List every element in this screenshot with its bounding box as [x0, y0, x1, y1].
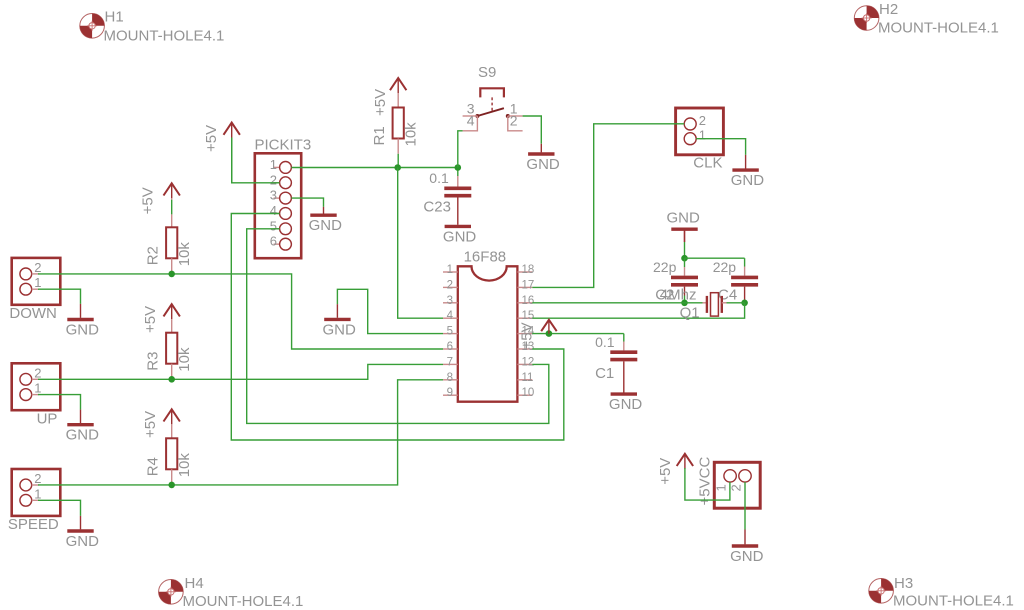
svg-text:2: 2	[34, 260, 41, 275]
svg-text:C1: C1	[595, 365, 614, 382]
svg-text:PICKIT3: PICKIT3	[255, 137, 312, 154]
pin 12 of U1	[517, 356, 534, 368]
pin 2 of VCC	[729, 470, 752, 492]
svg-text:11: 11	[522, 372, 534, 384]
ground below UP	[66, 410, 100, 444]
IC U1 16F88 body	[458, 266, 518, 401]
wire net S9 pin 1 to GND	[523, 116, 542, 144]
wire net PICKIT3 pin3 to GND	[291, 198, 323, 207]
svg-text:GND: GND	[526, 156, 560, 173]
pin 5 of U1	[443, 326, 458, 338]
svg-text:Q1: Q1	[680, 305, 700, 322]
svg-text:MOUNT-HOLE4.1: MOUNT-HOLE4.1	[104, 28, 225, 45]
svg-text:+5VCC: +5VCC	[697, 457, 714, 506]
junction node UP at R3	[168, 376, 175, 383]
pin 2 of SPEED	[20, 471, 42, 491]
ground below DOWN	[66, 304, 100, 339]
label C1	[595, 365, 614, 382]
svg-text:9: 9	[447, 387, 453, 399]
wire net CLK pin1 to GND	[696, 139, 745, 155]
label C2	[655, 287, 674, 304]
label R4	[145, 457, 162, 476]
ground below C23	[443, 225, 477, 246]
svg-text:5: 5	[447, 326, 453, 338]
pin 9 of U1	[443, 387, 458, 399]
svg-text:1: 1	[34, 486, 41, 501]
svg-text:R3: R3	[145, 352, 162, 371]
pin 18 of U1	[517, 264, 534, 276]
svg-text:GND: GND	[731, 172, 765, 189]
svg-text:MOUNT-HOLE4.1: MOUNT-HOLE4.1	[893, 593, 1014, 610]
ground below U1 pin5	[323, 304, 357, 338]
svg-text:4: 4	[447, 310, 454, 322]
svg-text:22p: 22p	[653, 259, 677, 275]
wire net PICKIT3 pin4 to U1 pin13	[231, 214, 564, 441]
power +5V above R2	[139, 183, 180, 214]
wire net U1 pin16 to OSC1	[532, 302, 684, 304]
label H3	[894, 575, 913, 592]
svg-text:H1: H1	[105, 9, 124, 26]
svg-text:+5V: +5V	[142, 411, 159, 438]
svg-text:7: 7	[447, 356, 453, 368]
pin 4 of U1	[443, 310, 458, 322]
mounting hole H3	[869, 579, 894, 604]
svg-text:17: 17	[522, 279, 535, 291]
wire C2 bottom to node OSC1	[684, 296, 686, 303]
wire net C2 top to C4 top	[685, 257, 745, 259]
svg-text:H3: H3	[894, 575, 913, 592]
value 22p of C4	[713, 259, 737, 275]
junction node VDD at +5V	[546, 330, 553, 337]
svg-text:R2: R2	[145, 246, 162, 265]
connector PICKIT3	[255, 153, 301, 258]
label DOWN	[9, 305, 57, 322]
svg-text:10: 10	[522, 387, 535, 399]
value MOUNT-HOLE4.1 of H4	[183, 593, 304, 610]
power +5V above PICKIT3 pin2	[203, 123, 240, 183]
svg-text:DOWN: DOWN	[9, 305, 57, 322]
svg-text:R4: R4	[145, 457, 162, 476]
pin 1 of UP	[20, 381, 42, 401]
pin 10 of U1	[517, 387, 534, 399]
svg-text:C23: C23	[423, 199, 451, 216]
svg-text:1: 1	[699, 128, 706, 143]
label H4	[185, 575, 204, 592]
svg-text:3: 3	[270, 188, 277, 203]
pin 3 of U1	[443, 295, 458, 307]
svg-text:+5V: +5V	[142, 306, 159, 333]
pin 6 of U1	[443, 341, 458, 353]
label S9	[478, 64, 496, 81]
wire net rail to S9 pin 4	[458, 131, 463, 168]
pin 8 of U1	[443, 372, 458, 384]
label +5VCC of VCC	[697, 457, 714, 506]
svg-text:6: 6	[270, 234, 277, 249]
svg-text:GND: GND	[66, 321, 100, 338]
svg-text:H2: H2	[879, 1, 898, 18]
svg-text:+5V: +5V	[203, 125, 220, 152]
svg-text:GND: GND	[323, 321, 357, 338]
wire net R1 to U1 pin4 MCLR	[398, 168, 443, 319]
pin 2 of S9	[508, 113, 523, 131]
pin 1 of CLK	[684, 128, 706, 145]
switch S9	[475, 88, 509, 118]
svg-text:2: 2	[34, 365, 41, 380]
pin 2 of DOWN	[20, 260, 42, 280]
pin 2 of PICKIT3	[270, 172, 292, 188]
svg-text:2: 2	[699, 113, 706, 128]
svg-text:2: 2	[729, 484, 744, 491]
svg-text:+5V: +5V	[139, 187, 156, 214]
svg-text:CLK: CLK	[693, 155, 722, 172]
connector CLK	[676, 108, 724, 155]
connector UP	[12, 363, 61, 410]
label SPEED	[8, 516, 59, 533]
wire net SPEED pin2 row	[38, 380, 443, 485]
wire net U1 pin17 to CLK pin2	[532, 124, 684, 288]
svg-text:2: 2	[34, 471, 41, 486]
wire net DOWN pin1 to GND	[38, 289, 81, 304]
ground below CLK	[731, 155, 765, 189]
ground below C1	[609, 393, 643, 414]
svg-text:1: 1	[447, 264, 453, 276]
pin 4 of S9	[463, 113, 478, 131]
value 0.1 of C23	[429, 170, 449, 186]
label C23	[423, 199, 451, 216]
value MOUNT-HOLE4.1 of H2	[878, 20, 999, 37]
wire net U1 pin5 VSS to GND	[337, 289, 443, 333]
value 4Mhz of Q1	[660, 287, 697, 304]
value 22p of C2	[653, 259, 677, 275]
junction node XTALTOP at C2	[681, 255, 688, 262]
capacitor C2	[671, 258, 698, 295]
connector DOWN	[12, 258, 61, 305]
svg-text:R1: R1	[371, 126, 388, 145]
junction node DOWN at R2	[168, 271, 175, 278]
svg-text:0.1: 0.1	[429, 170, 449, 186]
svg-text:+5V: +5V	[657, 458, 674, 485]
wire net DOWN pin2 row	[38, 274, 443, 349]
svg-text:22p: 22p	[713, 259, 737, 275]
pin 2 of U1	[443, 279, 458, 291]
power +5V at U1 pin 14	[519, 320, 557, 350]
resistor R4 body	[166, 438, 177, 484]
svg-text:16F88: 16F88	[464, 249, 507, 266]
label R3	[145, 352, 162, 371]
svg-text:4Mhz: 4Mhz	[660, 287, 697, 304]
pin 2 of CLK	[684, 113, 706, 130]
wire net U1 pin15 to OSC2	[532, 303, 744, 318]
svg-text:3: 3	[447, 295, 453, 307]
pin 2 of UP	[20, 365, 42, 385]
ground below PICKIT3 pin3	[309, 207, 343, 234]
junction node OSC2	[741, 300, 748, 307]
label CLK	[693, 155, 722, 172]
pin 1 of DOWN	[20, 275, 42, 295]
wire net SPEED pin1 to GND	[38, 500, 81, 516]
svg-text:GND: GND	[609, 396, 643, 413]
mounting hole H1	[80, 13, 105, 38]
pin 4 of PICKIT3	[270, 203, 292, 219]
wire net U1 pin14 to C1	[532, 333, 624, 335]
capacitor C23	[444, 168, 471, 225]
svg-text:6: 6	[447, 341, 453, 353]
pin 1 of PICKIT3	[270, 157, 292, 173]
value 10k of R1	[403, 122, 420, 147]
svg-text:4: 4	[467, 113, 475, 129]
power +5V above R4	[142, 409, 180, 438]
resistor R3 body	[166, 333, 177, 379]
svg-text:5: 5	[270, 218, 277, 233]
ground below SPEED	[66, 516, 100, 550]
pin 1 of U1	[443, 264, 458, 276]
value 0.1 of C1	[595, 334, 615, 350]
value 10k of R2	[176, 242, 193, 267]
label 16F88 of U1	[464, 249, 507, 266]
svg-text:S9: S9	[478, 64, 496, 81]
svg-text:18: 18	[522, 264, 535, 276]
mounting hole H2	[854, 6, 879, 31]
svg-text:10k: 10k	[176, 347, 193, 372]
label Q1	[680, 305, 700, 322]
power +5V above R1	[372, 78, 406, 116]
svg-text:0.1: 0.1	[595, 334, 615, 350]
pin 3 of PICKIT3	[270, 188, 292, 204]
svg-text:2: 2	[270, 172, 277, 187]
svg-text:1: 1	[270, 157, 277, 172]
svg-text:GND: GND	[66, 533, 100, 550]
svg-text:GND: GND	[309, 217, 343, 234]
label R2	[145, 246, 162, 265]
wire net PICKIT3 pin5 to U1 pin12	[247, 229, 549, 424]
connector SPEED	[12, 469, 61, 516]
junction rail at C23/S9	[455, 164, 462, 171]
pin 11 of U1	[517, 372, 533, 384]
wire net UP pin2 row	[38, 364, 443, 379]
pin 1 of SPEED	[20, 486, 42, 506]
wire net UP pin1 to GND	[38, 395, 81, 410]
power +5V above R3	[142, 304, 180, 333]
svg-text:+5V: +5V	[372, 89, 389, 116]
junction node SPEED at R4	[168, 482, 175, 489]
svg-text:GND: GND	[730, 548, 764, 565]
svg-text:10k: 10k	[403, 122, 420, 147]
wire GND lead to node XTALTOP	[684, 231, 686, 258]
wire net PICKIT3-1 to R1/C23 rail	[291, 167, 457, 169]
junction node OSC1	[681, 300, 688, 307]
svg-text:2: 2	[510, 113, 518, 129]
label H1	[105, 9, 124, 26]
wire net +5V to VCC pin1	[685, 468, 730, 500]
pin 7 of U1	[443, 356, 458, 368]
pin 6 of PICKIT3	[270, 234, 292, 250]
ground below VCC	[730, 530, 764, 565]
label C4	[718, 287, 737, 304]
label PICKIT3	[255, 137, 312, 154]
wire R1 to node MCLR	[397, 154, 399, 168]
svg-text:UP: UP	[37, 410, 58, 427]
svg-text:12: 12	[522, 356, 535, 368]
mounting hole H4	[159, 580, 184, 605]
label UP	[37, 410, 58, 427]
label H2	[879, 1, 898, 18]
svg-text:MOUNT-HOLE4.1: MOUNT-HOLE4.1	[878, 20, 999, 37]
svg-text:15: 15	[522, 310, 535, 322]
wire +5V to R2	[171, 200, 173, 228]
value 10k of R4	[176, 453, 193, 478]
svg-text:MOUNT-HOLE4.1: MOUNT-HOLE4.1	[183, 593, 304, 610]
pin 16 of U1	[517, 295, 534, 307]
pin 1 of S9	[508, 101, 523, 117]
svg-text:+5V: +5V	[519, 322, 536, 349]
svg-text:10k: 10k	[176, 453, 193, 478]
svg-text:GND: GND	[443, 228, 477, 245]
value 10k of R3	[176, 347, 193, 372]
svg-text:1: 1	[34, 275, 41, 290]
svg-text:GND: GND	[667, 210, 701, 227]
crystal Q1	[685, 293, 745, 316]
pin 17 of U1	[517, 279, 534, 291]
connector VCC	[714, 462, 760, 508]
capacitor C4	[731, 258, 758, 303]
resistor R2 body	[166, 227, 177, 273]
wire net +5V to PICKIT3 pin2	[232, 138, 280, 183]
pin 13 of U1	[517, 341, 534, 353]
svg-text:1: 1	[34, 381, 41, 396]
svg-text:GND: GND	[66, 427, 100, 444]
power +5V at VCC	[657, 454, 693, 485]
ground below S9	[526, 144, 560, 173]
capacitor C1	[610, 334, 637, 393]
pin 1 of VCC	[714, 470, 737, 492]
svg-text:SPEED: SPEED	[8, 516, 59, 533]
resistor R1 body	[393, 108, 404, 154]
value MOUNT-HOLE4.1 of H3	[893, 593, 1014, 610]
svg-text:1: 1	[714, 484, 729, 491]
svg-text:4: 4	[270, 203, 277, 218]
svg-text:16: 16	[522, 295, 535, 307]
svg-text:H4: H4	[185, 575, 204, 592]
pin 15 of U1	[517, 310, 534, 322]
label R1	[371, 126, 388, 145]
svg-text:8: 8	[447, 372, 453, 384]
pin 14 of U1	[517, 326, 534, 338]
svg-text:2: 2	[447, 279, 453, 291]
pin 3 of S9	[463, 101, 478, 117]
wire net VCC pin2 to GND	[744, 482, 746, 529]
junction rail at R1	[394, 164, 401, 171]
value MOUNT-HOLE4.1 of H1	[104, 28, 225, 45]
ground above crystal	[667, 210, 701, 242]
pin 5 of PICKIT3	[270, 218, 292, 234]
svg-text:10k: 10k	[176, 242, 193, 267]
